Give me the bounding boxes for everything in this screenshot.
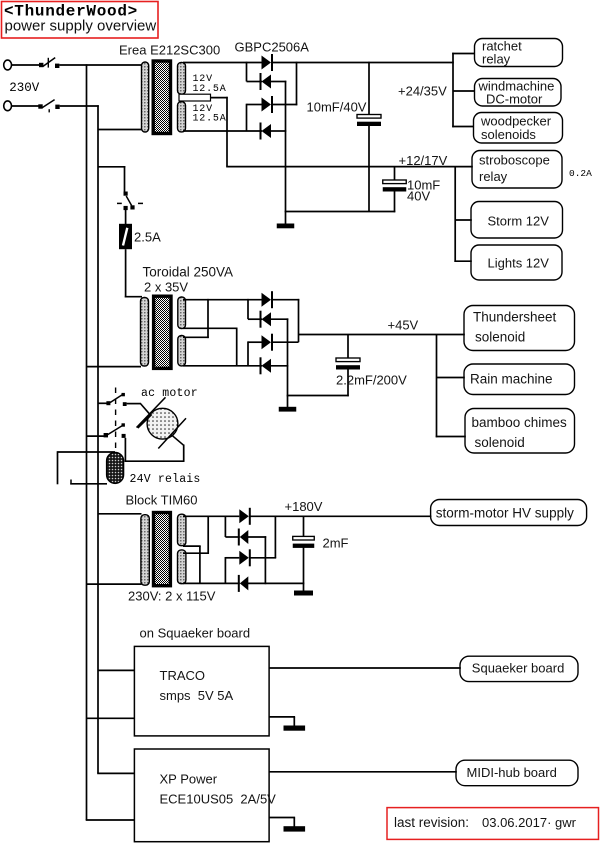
wire S3 to fuse F1 (125, 210, 127, 225)
label 0.2A (569, 168, 592, 179)
svg-text:12.5A: 12.5A (193, 114, 227, 125)
wire ground rail (285, 211, 396, 213)
svg-text:24V relais: 24V relais (130, 473, 201, 486)
motor crossing stroke (double) (138, 414, 152, 428)
wire AC1 vertical bridge2 (247, 299, 249, 319)
wire XP ground stub (293, 818, 295, 827)
wire B1 to T2 primary bottom (87, 366, 142, 368)
switch S1 contact right (55, 64, 59, 68)
diode D1 (262, 54, 273, 71)
label 2.2mF/200V (336, 373, 407, 388)
label 230V: 2 x 115V (128, 589, 216, 604)
diode D9 (239, 508, 250, 525)
wire row3 right (272, 104, 297, 106)
wire AC2 vertical bridge2 (247, 341, 249, 365)
wire XP to MIDI-hub board (269, 771, 457, 773)
svg-text:last revision:: last revision: (394, 815, 469, 830)
wire +24/35V distribution vertical (452, 53, 454, 128)
box ratchet relay (475, 39, 563, 67)
wire +45V rail (299, 334, 465, 336)
terminal L (mains) (4, 60, 12, 70)
wire sec parallel vertical T3 (207, 516, 209, 555)
wire 45V distribution vertical (436, 335, 438, 438)
label 2mF (323, 536, 349, 551)
label Toroidal 250VA (143, 265, 234, 280)
switch S3 lever (126, 196, 131, 206)
box MIDI-hub board (456, 760, 578, 786)
wire DC+ vertical bridge2 (298, 299, 300, 342)
label Block TIM60 (126, 493, 198, 508)
wire S3 feed vertical (124, 166, 126, 192)
capacitor C3 wire upper (347, 335, 349, 359)
switch link dashed line (115, 388, 117, 450)
wire S2 to bus B2 corner (60, 105, 99, 107)
motor crossing line upper-left (137, 397, 166, 427)
svg-text:storm-motor HV supply: storm-motor HV supply (436, 506, 574, 521)
box TRACO smps (134, 646, 269, 736)
transformer T3 secondary winding 1 (178, 514, 186, 546)
diode D3 (262, 96, 273, 113)
wire TRACO to Squaeker board (269, 667, 461, 669)
svg-text:GBPC2506A: GBPC2506A (235, 40, 310, 55)
capacitor C2 10mF 40V (383, 180, 407, 192)
wire sec1 bottom down to row4 T3 (199, 546, 201, 583)
svg-text:bamboo chimes: bamboo chimes (472, 415, 568, 430)
label +180V (285, 499, 323, 514)
wire DC+ vertical bridge3 (274, 516, 276, 558)
ground (bridge 2) (279, 407, 297, 412)
svg-text:2.2mF/200V: 2.2mF/200V (336, 373, 407, 388)
diode D11 (239, 549, 250, 566)
wire row3 right bridge3 (250, 557, 276, 559)
box woodpecker solenoids (474, 113, 563, 144)
diode D8 (261, 357, 272, 374)
svg-text:Rain machine: Rain machine (470, 372, 553, 387)
capacitor C1 10mF/40V (357, 115, 381, 127)
box Thundersheet solenoid (464, 306, 575, 351)
wire branch to Rain machine (437, 377, 465, 379)
switch S1 lever (43, 58, 55, 67)
wire B2 to T3 primary top (98, 513, 142, 515)
wire B2 to T1 primary bottom (98, 129, 143, 131)
wire S4 to motor (127, 404, 150, 415)
label Erea E212SC300 (119, 43, 220, 58)
svg-text:Lights 12V: Lights 12V (488, 256, 550, 271)
transformer T1 secondary winding 2 (178, 102, 186, 132)
transformer T2 core (154, 296, 171, 368)
capacitor C1 wire lower (368, 126, 370, 213)
capacitor C2 wire upper (394, 167, 396, 180)
label last revision (394, 815, 577, 830)
wire T2 sec2 top lead (183, 336, 209, 338)
svg-text:Thundersheet: Thundersheet (473, 310, 557, 325)
wire terminal L to switch S1 (12, 64, 40, 66)
wire row4 right bridge3 (248, 582, 304, 584)
transformer T1 secondary winding 1 (178, 62, 186, 94)
box Storm 12V (471, 202, 563, 239)
T1 center tap lead (179, 94, 211, 101)
capacitor C1 wire upper (368, 62, 370, 115)
title box (2, 2, 159, 39)
wire F1 to transformer T2 primary (125, 249, 142, 297)
title text <ThunderWood> (4, 3, 138, 21)
wire sec1-to-sec2 parallel vertical (207, 299, 209, 338)
box Rain machine (464, 364, 575, 395)
switch S4 lever (110, 394, 123, 402)
transformer T2 primary winding (141, 298, 149, 367)
label 12V (winding 2) (193, 104, 213, 115)
wire ground rail bridge2 (287, 395, 349, 397)
wire T3 sec2 bottom to diode D12 (183, 582, 240, 584)
switch S5 lever (108, 426, 123, 435)
wire relay bottom tick (70, 480, 72, 485)
wire DC- vertical to ground (285, 81, 287, 212)
wire +12/17V rail (226, 166, 473, 168)
svg-text:ECE10US05 2A/5V: ECE10US05 2A/5V (160, 792, 277, 807)
capacitor C4 wire upper (303, 516, 305, 536)
label 2.5A (134, 230, 161, 245)
wire TRACO ground stub (293, 717, 295, 726)
wire branch to windmachine (453, 90, 475, 92)
diode D12 (239, 575, 249, 592)
wire D1 to +24/35V rail corner (272, 62, 454, 64)
label 2 x 35V (144, 280, 188, 295)
label TRACO (160, 668, 206, 683)
svg-text:10mF/40V: 10mF/40V (307, 100, 367, 115)
label ac motor (141, 387, 198, 400)
wire relay feed horizontal (58, 451, 116, 453)
transformer T1 primary winding (142, 62, 149, 132)
svg-text:Toroidal 250VA: Toroidal 250VA (143, 265, 234, 280)
svg-text:+45V: +45V (388, 318, 419, 333)
svg-text:solenoid: solenoid (475, 435, 525, 450)
wire T2 sec2 bottom to diode D8 (183, 365, 262, 367)
wire S1 to transformer T1 primary (60, 64, 143, 66)
wire DC- vertical bridge3 (264, 536, 266, 584)
svg-text:40V: 40V (407, 189, 430, 204)
diode D2 (261, 73, 272, 90)
svg-text:230V: 230V (9, 81, 40, 95)
wire row4 right bridge2 (271, 365, 289, 367)
ground (XP Power) (284, 826, 306, 831)
ground (bridge 3) (294, 591, 313, 596)
wire T2 sec1 bottom lead (183, 327, 238, 329)
box storm-motor HV supply (431, 500, 587, 526)
subtitle power supply overview (5, 18, 157, 35)
svg-text:+24/35V: +24/35V (398, 84, 447, 99)
wire terminal N to switch S2 (12, 105, 40, 107)
capacitor C2 wire lower (394, 191, 396, 212)
switch S3 contact lever-end (130, 205, 134, 209)
box XP Power (134, 749, 269, 842)
wire branch to woodpecker (452, 126, 474, 128)
svg-text:Block TIM60: Block TIM60 (126, 493, 198, 508)
motor crossing line lower-right (158, 418, 186, 448)
switch S4 contact right (123, 402, 127, 406)
switch S2 lever (42, 100, 54, 108)
diode D5 (262, 291, 273, 308)
wire sec1 bottom down to row4 (236, 328, 238, 366)
wire center tap (211, 97, 228, 99)
transformer T3 core (154, 513, 171, 586)
svg-text:03.06.2017· gwr: 03.06.2017· gwr (482, 815, 577, 830)
fuse F1 body (119, 224, 132, 249)
wire AC2 vertical (row3-row4) (246, 104, 248, 131)
capacitor C4 2mF (293, 536, 315, 547)
wire B1 to T3 primary bottom (87, 583, 142, 585)
box bamboo chimes solenoid (465, 409, 575, 454)
switch S3 contact bottom (124, 206, 128, 210)
wire relay bottom lead (70, 483, 107, 485)
label 230V (9, 81, 40, 95)
switch S1 link dash (47, 58, 49, 68)
label ECE10US05 2A/5V (160, 792, 277, 807)
wire branch to Storm 12V (455, 219, 472, 221)
wire row2 right bridge2 (271, 318, 289, 320)
diode D10 (239, 529, 249, 546)
relay coil K1 (24V) (107, 452, 124, 483)
wire row2 left bridge2 (248, 318, 262, 320)
wire row2 right bridge3 (248, 536, 266, 538)
label 10mF/40V (307, 100, 367, 115)
switch S3 link dash left (117, 202, 122, 204)
svg-text:MIDI-hub board: MIDI-hub board (467, 765, 557, 780)
diode D6 (261, 311, 272, 328)
label 40V (C2) (407, 189, 430, 204)
wire B2 to switch S3 (98, 166, 125, 168)
ground stub (bridge 2) (287, 396, 289, 408)
capacitor C3 2.2mF/200V (336, 358, 360, 370)
wire T3 sec1 bottom lead (183, 545, 201, 547)
label XP Power (160, 772, 218, 787)
wire branch to Lights 12V (454, 260, 471, 262)
transformer T1 core (153, 61, 170, 134)
switch S2 contact left (38, 104, 42, 108)
wire T3 sec1 top to diode D9 (183, 515, 239, 517)
wire T3 sec2 top lead (183, 552, 209, 554)
wire DC+ vertical (row1-row3) (296, 62, 298, 106)
switch S1 contact left (39, 63, 43, 67)
wire TRACO ground lead (269, 716, 295, 718)
box Squaeker board (460, 656, 578, 681)
wire row2 left (247, 81, 263, 83)
svg-text:ac motor: ac motor (141, 387, 198, 400)
svg-text:solenoids: solenoids (481, 127, 536, 142)
switch S5 contact right (122, 434, 126, 438)
wire relay feed stub down (57, 451, 59, 484)
ground stub (bridge 1) (285, 212, 287, 225)
wire XP ground lead (269, 817, 295, 819)
label on Squaeker board (140, 626, 251, 641)
switch S3 contact top (124, 192, 128, 196)
wire B2 to TRACO (98, 669, 135, 671)
box windmachine DC-motor (475, 79, 562, 107)
label 12.5A (winding 1) (193, 84, 227, 95)
svg-text:DC-motor: DC-motor (486, 92, 543, 107)
svg-text:230V: 2 x 115V: 230V: 2 x 115V (128, 589, 216, 604)
bus B1 vertical (switched L) (86, 64, 88, 820)
bus B2 to XP power top (97, 772, 135, 774)
wire D5 to DC+ corner (272, 299, 299, 301)
switch S2 link dash (48, 109, 50, 112)
switch S3 link dash right (138, 202, 143, 204)
diode D7 (262, 334, 273, 351)
bus B2 vertical (switched N) (97, 105, 99, 773)
revision box (387, 808, 599, 840)
svg-text:solenoid: solenoid (475, 330, 525, 345)
wire DC- vertical bridge2 (287, 318, 289, 396)
wire row2 left bridge3 (225, 536, 239, 538)
svg-text:relay: relay (482, 52, 511, 67)
wire center tap down to +12/17V rail (226, 97, 228, 167)
wire row3 left (247, 104, 263, 106)
ground (TRACO) (284, 726, 306, 731)
wire B2 to switch S4 (98, 402, 107, 404)
label +45V (388, 318, 419, 333)
ground (bridge 1) (277, 224, 295, 229)
wire AC1 vertical (row1-row2) (246, 62, 248, 82)
svg-text:XP Power: XP Power (160, 772, 218, 787)
svg-text:+180V: +180V (285, 499, 323, 514)
wire S5 down (124, 438, 126, 462)
svg-text:stroboscope: stroboscope (479, 153, 550, 168)
fuse F1 slash (123, 228, 127, 246)
svg-text:12.5A: 12.5A (193, 84, 227, 95)
wire motor return bottom (125, 460, 185, 462)
wire row3 left bridge2 (248, 341, 262, 343)
svg-text:Erea E212SC300: Erea E212SC300 (119, 43, 220, 58)
svg-text:2.5A: 2.5A (134, 230, 161, 245)
capacitor C4 wire lower (303, 547, 305, 591)
svg-text:+12/17V: +12/17V (399, 153, 448, 168)
capacitor C3 wire lower (347, 369, 349, 396)
wire 12V distribution vertical (454, 167, 456, 262)
label +24/35V (398, 84, 447, 99)
svg-text:relay: relay (479, 169, 508, 184)
bus B1 to XP power bottom (86, 819, 135, 821)
wire row4 right (271, 130, 287, 132)
svg-text:TRACO: TRACO (160, 668, 206, 683)
label smps 5V 5A (160, 688, 234, 703)
switch S4 pivot square (122, 393, 125, 396)
switch S5 contact left (104, 433, 108, 437)
wire +180V rail (250, 515, 432, 517)
switch S4 contact left (106, 401, 110, 405)
wire B1 to TRACO (87, 717, 136, 719)
wire T1 sec2 bottom to diode D4 (183, 130, 262, 132)
wire T2 sec1 top to diode D5 (183, 299, 262, 301)
svg-text:power supply overview: power supply overview (5, 18, 157, 35)
box stroboscope relay (472, 151, 562, 189)
svg-text:2 x 35V: 2 x 35V (144, 280, 188, 295)
wire row2 right (271, 81, 287, 83)
switch S2 contact right (55, 105, 59, 109)
label +12/17V (399, 153, 448, 168)
wire AC1 vertical bridge3 (224, 516, 226, 538)
switch S5 pivot square (122, 423, 125, 426)
ac motor M1 (147, 408, 178, 439)
svg-text:on Squaeker board: on Squaeker board (140, 626, 251, 641)
diode D4 (261, 123, 272, 140)
transformer T3 secondary winding 2 (178, 550, 186, 584)
wire T1 sec1 top to diode D1 (183, 62, 262, 64)
wire AC2 vertical bridge3 (224, 557, 226, 583)
svg-text:Squaeker board: Squaeker board (472, 661, 565, 676)
label 12V (winding 1) (193, 74, 213, 85)
transformer T2 secondary winding 1 (178, 297, 186, 329)
wire row3 right bridge2 (272, 341, 299, 343)
wire row3 left bridge3 (225, 557, 239, 559)
wire motor return up (183, 445, 185, 462)
wire motor return diagonal (171, 435, 184, 446)
terminal N (mains) (4, 101, 12, 111)
wire branch to bamboo chimes (436, 436, 466, 438)
transformer T3 primary winding (141, 515, 149, 586)
label 12.5A (winding 2) (193, 114, 227, 125)
label 10mF (C2) (407, 178, 440, 193)
svg-text:2mF: 2mF (323, 536, 349, 551)
label GBPC2506A (235, 40, 310, 55)
box Lights 12V (471, 245, 562, 280)
label 24V relais (130, 473, 201, 486)
svg-text:Storm 12V: Storm 12V (488, 214, 550, 229)
svg-text:0.2A: 0.2A (569, 168, 592, 179)
wire B1 to switch S5 (87, 435, 105, 437)
wire branch to ratchet relay (452, 53, 475, 55)
transformer T2 secondary winding 2 (178, 336, 186, 366)
svg-text:smps 5V 5A: smps 5V 5A (160, 688, 234, 703)
